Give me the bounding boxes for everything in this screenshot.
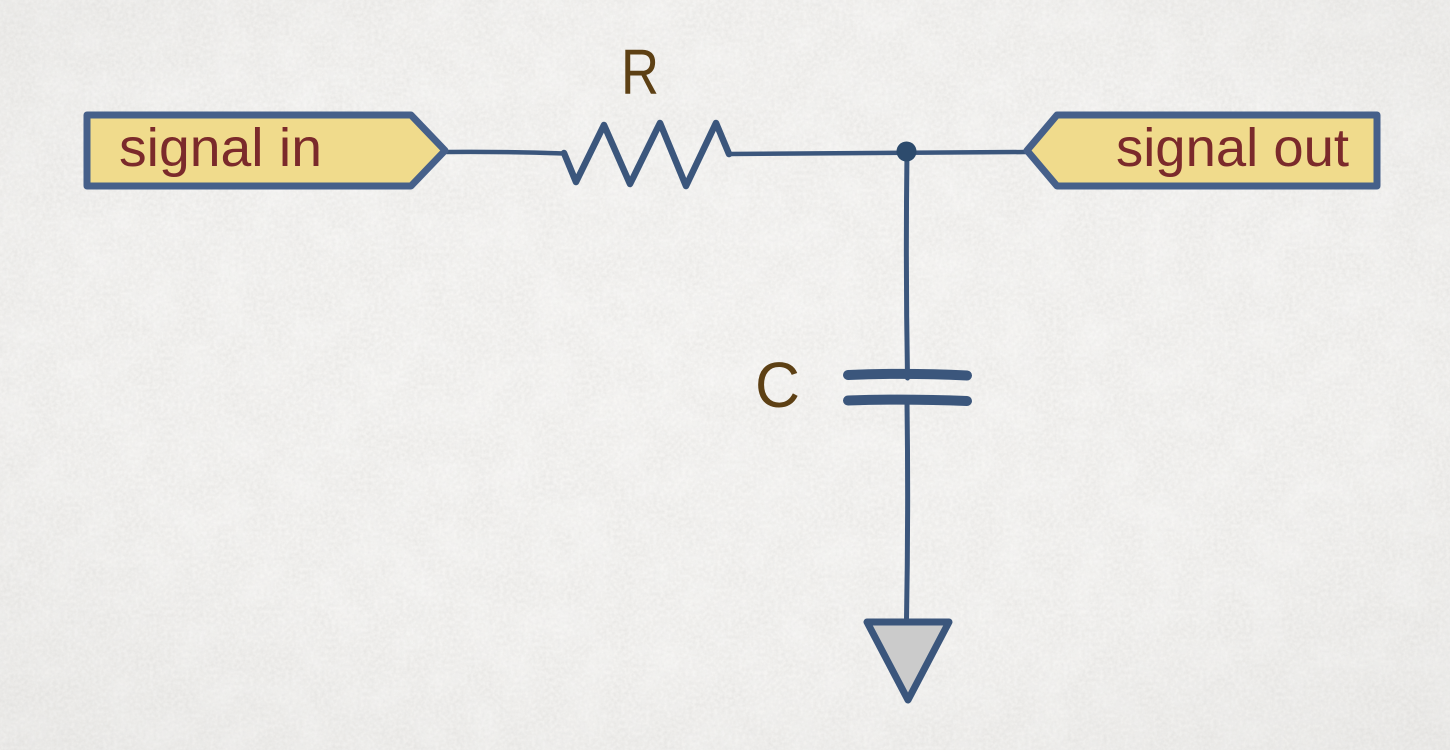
svg-text:signal in: signal in — [119, 118, 322, 178]
svg-text:signal out: signal out — [1116, 118, 1349, 178]
svg-text:R: R — [621, 36, 659, 108]
svg-text:C: C — [755, 349, 800, 421]
